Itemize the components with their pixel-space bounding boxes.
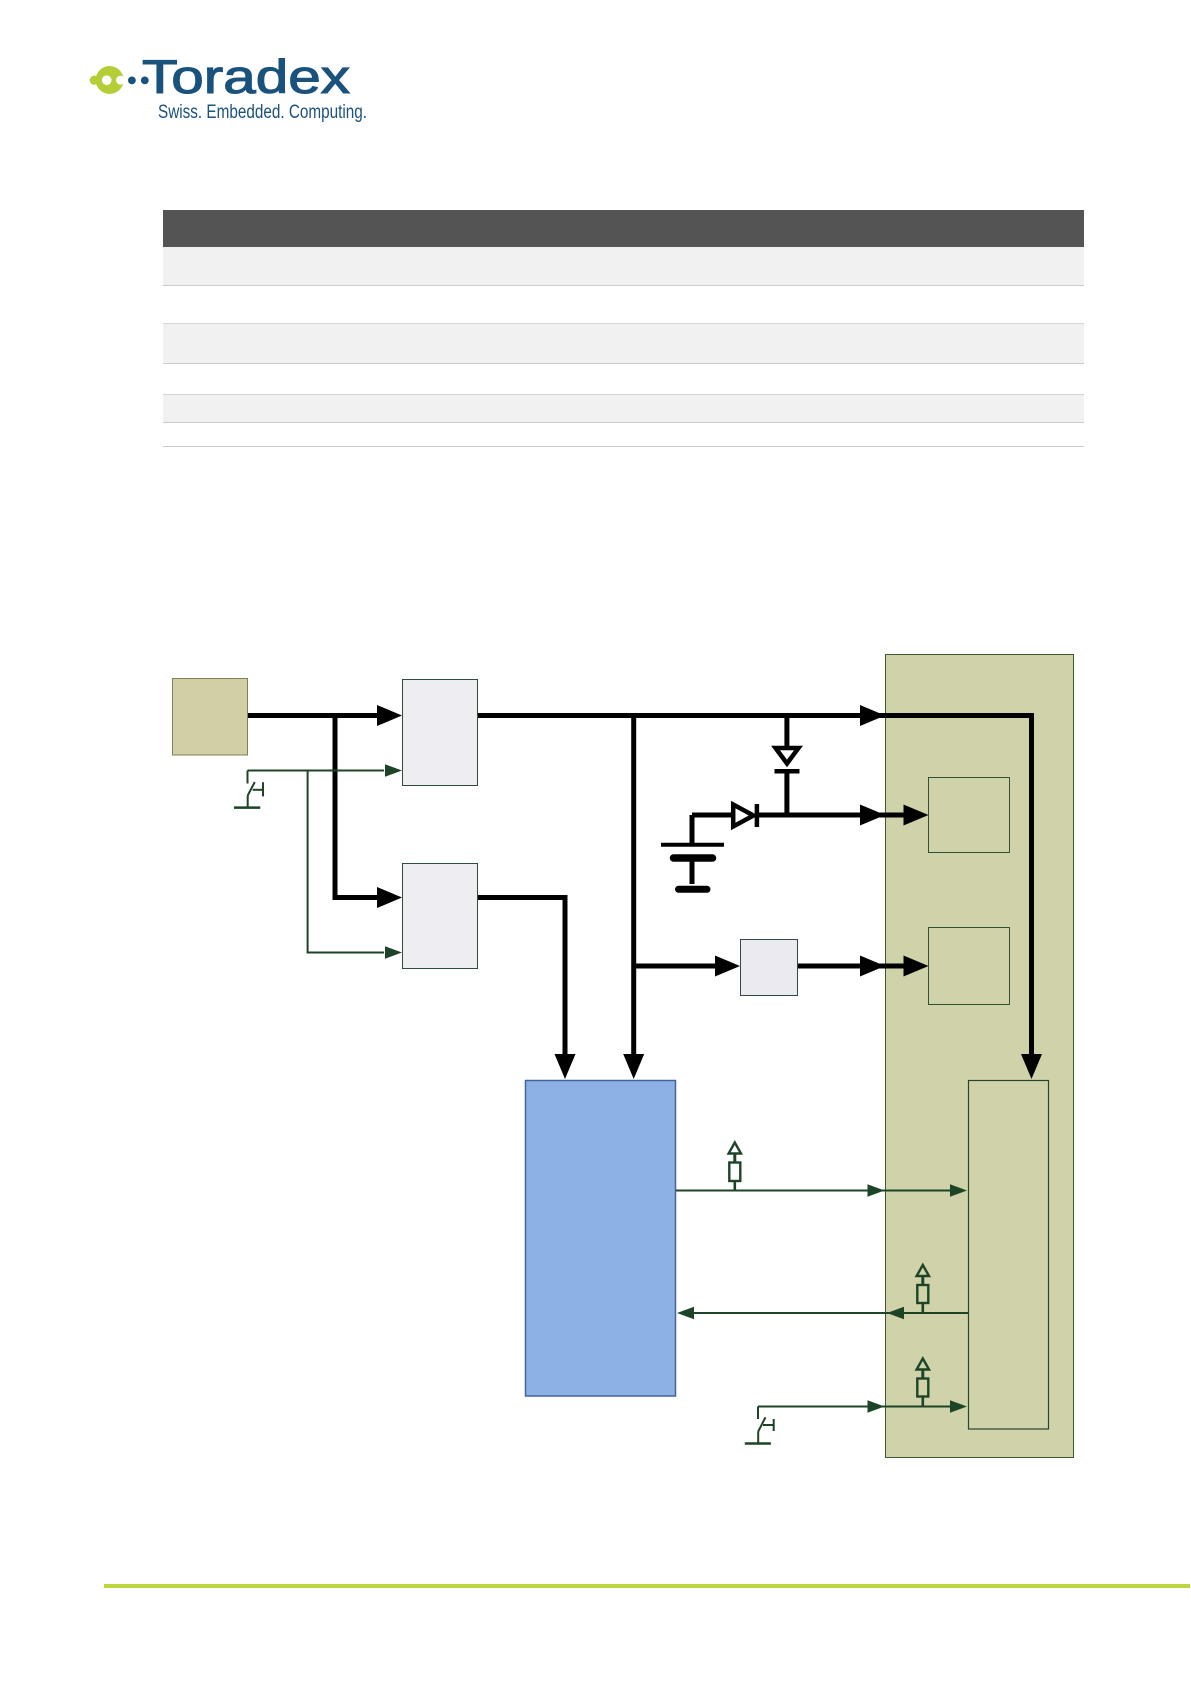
arrow at module edge [860, 956, 885, 977]
arrow into controller [677, 1307, 694, 1320]
switch SW1 [234, 771, 263, 808]
battery BT1 [661, 815, 724, 889]
regulator block U1 [403, 680, 478, 786]
arrow down into controller [623, 1054, 644, 1079]
arrow into U2 [385, 946, 402, 959]
wire: reset signal to module [758, 1406, 952, 1408]
logo navy dots [128, 77, 149, 85]
arrow at module edge [868, 1184, 885, 1197]
diode D2 [733, 804, 757, 827]
arrow at module edge [860, 805, 885, 826]
wire: U1 output to module [478, 716, 1032, 1057]
pull-up R2 [917, 1265, 929, 1313]
arrow down into controller [555, 1054, 576, 1079]
inner tall pin box [969, 1081, 1049, 1430]
diode D1 [775, 748, 800, 815]
wire: input to U1 [248, 713, 380, 718]
inner pin box 2 [929, 928, 1010, 1005]
regulator block U2 [403, 864, 478, 969]
table [163, 210, 1084, 447]
arrow into U2 [377, 887, 402, 908]
arrow at module edge [868, 1400, 885, 1413]
wire: main rail down to controller [631, 713, 636, 1056]
wire: U2 output down to controller [478, 898, 565, 1057]
wire: enable branch to U2 [308, 771, 384, 953]
arrow into pin box 2 [904, 956, 929, 977]
wire: signal module to controller [692, 1312, 968, 1314]
wire: branch down to U2 [335, 713, 380, 898]
level shifter block [741, 940, 798, 996]
footer rule [104, 1584, 1190, 1589]
arrow down into tall pin box [1021, 1054, 1042, 1079]
pull-up R1 [729, 1143, 741, 1191]
wire: level shifter to module [798, 964, 906, 969]
pull-up R3 [917, 1359, 929, 1407]
inner pin box 1 [929, 778, 1010, 853]
arrow into level shifter [715, 956, 740, 977]
Toradex logo [0, 0, 420, 140]
arrow into tall pin box [950, 1400, 967, 1413]
wire: battery to module [692, 813, 906, 818]
wire: rail branch to level shifter [634, 964, 718, 969]
switch SW2 [745, 1407, 774, 1444]
wire: signal controller to module [676, 1190, 952, 1192]
arrow into U1 [385, 764, 402, 777]
arrow into tall pin box [950, 1184, 967, 1197]
module panel [886, 655, 1074, 1458]
arrow at module edge [887, 1307, 904, 1320]
wire: zener branch [784, 716, 789, 751]
arrow at module edge [860, 705, 885, 726]
controller block [526, 1081, 676, 1397]
wire: enable signal to U1 [248, 770, 385, 772]
arrow into U1 [377, 705, 402, 726]
arrow into pin box 1 [904, 805, 929, 826]
power input block [173, 679, 248, 756]
logo green blob [90, 66, 125, 94]
